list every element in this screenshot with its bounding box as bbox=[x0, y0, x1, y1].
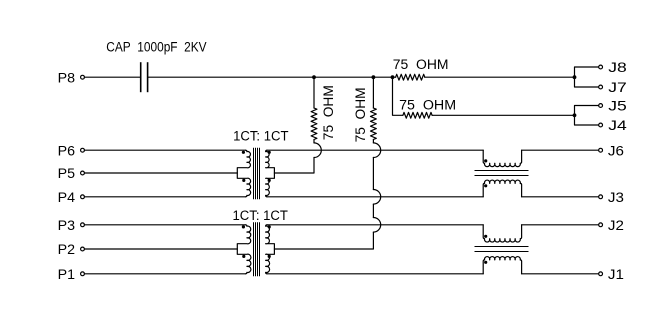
transformer T2 bbox=[237, 222, 274, 276]
node J2 bbox=[599, 218, 624, 234]
resistor 75 OHM (to J5/J4) bbox=[403, 112, 575, 118]
wire to J7 bbox=[575, 77, 599, 87]
junction on rail at R3 tap bbox=[312, 75, 316, 79]
node J5 bbox=[599, 99, 627, 115]
svg-text:75 OHM: 75 OHM bbox=[393, 57, 449, 73]
junction at J5/J4 split bbox=[573, 113, 577, 117]
svg-text:1CT: 1CT: 1CT: 1CT bbox=[233, 208, 289, 224]
phase dot right upper bbox=[268, 225, 271, 228]
right winding bbox=[266, 150, 275, 197]
wire T1 secondary bottom to choke bbox=[267, 196, 483, 198]
wire hop over row1 (left resistor) bbox=[314, 143, 321, 158]
phase dot bottom bbox=[484, 261, 487, 264]
svg-text:1CT: 1CT: 1CT: 1CT bbox=[233, 128, 289, 144]
wire hop over row3 bbox=[373, 190, 380, 205]
svg-text:CAP 1000pF 2KV: CAP 1000pF 2KV bbox=[106, 39, 207, 55]
wire P3 bbox=[84, 224, 245, 226]
phase dot left lower bbox=[242, 179, 245, 182]
wire P1 bbox=[84, 273, 245, 275]
right winding bbox=[266, 225, 275, 274]
wire P8 to capacitor bbox=[84, 76, 139, 78]
svg-text:P4: P4 bbox=[58, 190, 76, 206]
svg-text:J8: J8 bbox=[608, 60, 627, 76]
resistor 75 OHM (vertical, right) bbox=[371, 77, 377, 143]
bottom winding bbox=[483, 257, 521, 274]
wire to J8 bbox=[575, 67, 599, 77]
phase dot right upper bbox=[268, 151, 271, 154]
transformer T1 bbox=[237, 148, 274, 200]
svg-text:75 OHM: 75 OHM bbox=[321, 85, 337, 140]
node P8 bbox=[58, 70, 85, 86]
wire hop over row1 (right resistor) bbox=[373, 143, 380, 158]
capacitor C1 bbox=[141, 62, 148, 92]
wire choke to J6 bbox=[522, 149, 599, 151]
svg-text:P2: P2 bbox=[58, 242, 76, 258]
wire choke to J3 bbox=[522, 196, 599, 198]
wire P5 bbox=[84, 172, 237, 174]
svg-text:P8: P8 bbox=[58, 70, 76, 86]
phase dot top bbox=[484, 159, 487, 162]
wire hop over row4 bbox=[373, 218, 380, 233]
core bbox=[253, 222, 255, 276]
phase dot left upper bbox=[242, 151, 245, 154]
choke L2 bbox=[475, 225, 529, 274]
phase dot right lower bbox=[268, 255, 271, 258]
wire to J4 bbox=[575, 115, 599, 125]
phase dot left upper bbox=[242, 225, 245, 228]
svg-text:J2: J2 bbox=[608, 218, 624, 234]
left winding bbox=[237, 225, 251, 274]
node J6 bbox=[599, 143, 624, 159]
node P3 bbox=[58, 218, 85, 234]
svg-text:J1: J1 bbox=[608, 267, 624, 283]
wire resistor2 to T2 center tap bbox=[274, 232, 373, 249]
node J8 bbox=[599, 60, 627, 76]
svg-text:75 OHM: 75 OHM bbox=[399, 98, 456, 114]
wire P2 bbox=[84, 248, 237, 250]
junction at J8/J7 split bbox=[573, 75, 577, 79]
resistor 75 OHM (to J8/J7) bbox=[393, 74, 575, 80]
top winding bbox=[483, 225, 521, 242]
svg-text:J4: J4 bbox=[608, 118, 627, 134]
node P6 bbox=[58, 143, 85, 159]
node P1 bbox=[58, 267, 85, 283]
wire T2 secondary top to choke bbox=[267, 224, 483, 226]
node J4 bbox=[599, 118, 627, 134]
wire choke to J2 bbox=[522, 224, 599, 226]
svg-text:75 OHM: 75 OHM bbox=[353, 87, 369, 142]
svg-text:P3: P3 bbox=[58, 218, 76, 234]
left winding bbox=[237, 150, 250, 197]
phase dot bottom bbox=[484, 184, 487, 187]
core bbox=[253, 148, 255, 200]
phase dot top bbox=[484, 235, 487, 238]
phase dot right lower bbox=[268, 179, 271, 182]
svg-text:P6: P6 bbox=[58, 143, 76, 159]
node P5 bbox=[58, 166, 85, 182]
core bbox=[475, 170, 529, 172]
wire T2 secondary bottom to choke bbox=[267, 273, 483, 275]
node P4 bbox=[58, 190, 85, 206]
junction on rail at R4 tap bbox=[372, 75, 376, 79]
top winding bbox=[483, 150, 521, 166]
wire T1 secondary top to choke bbox=[267, 149, 483, 151]
wire P6 bbox=[84, 149, 245, 151]
svg-text:J7: J7 bbox=[608, 80, 627, 96]
wire segment between hops bbox=[372, 158, 374, 190]
svg-text:P5: P5 bbox=[58, 166, 76, 182]
bottom winding bbox=[483, 180, 521, 197]
core bbox=[475, 246, 529, 248]
phase dot left lower bbox=[242, 255, 245, 258]
svg-text:J5: J5 bbox=[608, 99, 627, 115]
svg-text:J3: J3 bbox=[608, 190, 624, 206]
junction at rail corner bbox=[391, 75, 395, 79]
wire segment between hops bbox=[372, 204, 374, 217]
resistor 75 OHM (vertical, left) bbox=[311, 77, 317, 143]
wire P4 bbox=[84, 196, 245, 198]
node P2 bbox=[58, 242, 85, 258]
wire choke to J1 bbox=[522, 273, 599, 275]
choke L1 bbox=[475, 150, 529, 197]
node J3 bbox=[599, 190, 624, 206]
svg-text:J6: J6 bbox=[608, 143, 624, 159]
wire corner down to branch 2 bbox=[393, 77, 403, 115]
svg-text:P1: P1 bbox=[58, 267, 76, 283]
wire to J5 bbox=[575, 106, 599, 116]
node J7 bbox=[599, 80, 627, 96]
node J1 bbox=[599, 267, 624, 283]
wire capacitor to corner (common rail) bbox=[148, 76, 392, 78]
wire resistor1 to T1 center tap bbox=[274, 158, 314, 174]
